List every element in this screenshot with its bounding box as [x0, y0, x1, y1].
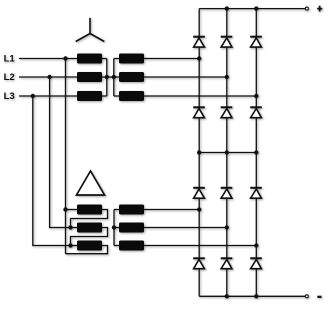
wire delta wrap A-B — [71, 210, 108, 228]
diode D3 — [250, 37, 262, 47]
winding T2 secondary C — [119, 241, 144, 251]
junction T2 delta node C — [68, 243, 72, 247]
wire T1 secondary C to bridge 1 — [144, 95, 256, 97]
junction positive bus rail2 — [225, 6, 229, 10]
wire L2 line — [19, 76, 77, 78]
wire T2 secondary B stub — [114, 227, 119, 229]
wire T2 primary B left — [71, 227, 78, 229]
wye symbol (star winding mark) — [76, 18, 105, 42]
junction T2 secondary star point — [112, 225, 116, 229]
diode D9 — [250, 188, 262, 198]
diode D6 — [250, 107, 262, 117]
wire L3 drop — [33, 96, 71, 246]
wire bridge rail 2 — [226, 9, 228, 297]
winding T2 primary C — [77, 241, 102, 251]
wire T2 primary A left — [66, 209, 78, 211]
junction bridge1 phase B — [225, 75, 229, 79]
wire positive bus — [199, 8, 305, 10]
winding T1 secondary A — [119, 54, 144, 64]
junction midpoint rail3 — [254, 150, 258, 154]
wire T1 secondary A to bridge 1 — [144, 58, 199, 60]
diode D10 — [193, 258, 205, 268]
junction negative bus rail3 — [254, 294, 258, 298]
diode D2 — [221, 37, 233, 47]
junction bridge2 phase A — [197, 207, 201, 211]
svg-text:L1: L1 — [4, 53, 16, 64]
junction L3 tap — [31, 94, 35, 98]
wire bridge rail 3 — [255, 9, 257, 297]
junction T2 delta node B — [68, 225, 72, 229]
diode D7 — [193, 188, 205, 198]
junction bridge1 phase C — [254, 94, 258, 98]
diode D11 — [221, 258, 233, 268]
junction T2 delta node A — [63, 207, 67, 211]
wire T2 primary C left — [71, 245, 78, 247]
winding T2 primary B — [77, 223, 102, 233]
junction bridge2 phase C — [254, 243, 258, 247]
wire bridge rail 1 — [198, 9, 200, 297]
junction bridge1 phase A — [197, 56, 201, 60]
wire T1 secondary C stub — [114, 95, 119, 97]
svg-text:L2: L2 — [4, 72, 15, 83]
junction T1 secondary star point — [112, 75, 116, 79]
wire negative bus — [199, 295, 305, 297]
wire L3 line — [19, 95, 77, 97]
winding T2 secondary A — [119, 205, 144, 215]
diode D12 — [250, 258, 262, 268]
wire L2 drop — [50, 77, 71, 228]
wire T1 primary star vertical — [106, 59, 108, 97]
label + — [317, 6, 322, 12]
svg-text:L3: L3 — [4, 91, 15, 102]
junction L2 tap — [47, 75, 51, 79]
wire T1 secondary A stub — [114, 58, 119, 60]
junction L1 tap — [63, 56, 67, 60]
winding T2 secondary B — [119, 223, 144, 233]
diode D1 — [193, 37, 205, 47]
diode D5 — [221, 107, 233, 117]
junction positive bus rail3 — [254, 6, 258, 10]
diode D4 — [193, 107, 205, 117]
wire T1 star link (primary B through both star points) — [102, 76, 119, 78]
winding T1 primary C — [77, 91, 102, 101]
wire T1 secondary B to bridge 1 — [144, 76, 227, 78]
junction midpoint rail2 — [225, 150, 229, 154]
junction negative bus rail2 — [225, 294, 229, 298]
winding T2 primary A — [77, 205, 102, 215]
wire delta wrap B-C — [71, 228, 108, 246]
junction T1 primary star point — [105, 75, 109, 79]
junction bridge2 phase B — [225, 225, 229, 229]
wire T1 secondary star vertical — [113, 59, 115, 97]
wire T2 secondary C to bridge 2 — [144, 245, 256, 247]
wire T2 secondary A to bridge 2 — [144, 209, 199, 211]
wire midpoint bus — [199, 152, 256, 154]
wire T2 secondary A stub — [114, 209, 119, 211]
wire T1 primary A to star — [102, 58, 107, 60]
wire L1 line — [19, 58, 77, 60]
terminal + circle — [305, 7, 308, 10]
wire delta wrap C-A bottom — [66, 246, 108, 254]
winding T1 primary B — [77, 72, 102, 82]
wire L1 drop — [65, 59, 67, 254]
junction midpoint rail1 — [197, 150, 201, 154]
diode D8 — [221, 188, 233, 198]
wire T1 primary C to star — [102, 95, 107, 97]
wire T2 secondary star vertical — [113, 210, 115, 246]
delta symbol (delta winding mark) — [77, 171, 105, 195]
winding T1 primary A — [77, 54, 102, 64]
winding T1 secondary C — [119, 91, 144, 101]
winding T1 secondary B — [119, 72, 144, 82]
terminal - circle — [305, 295, 308, 298]
wire T2 secondary B to bridge 2 — [144, 227, 227, 229]
wire T2 secondary C stub — [114, 245, 119, 247]
label - — [317, 296, 321, 298]
